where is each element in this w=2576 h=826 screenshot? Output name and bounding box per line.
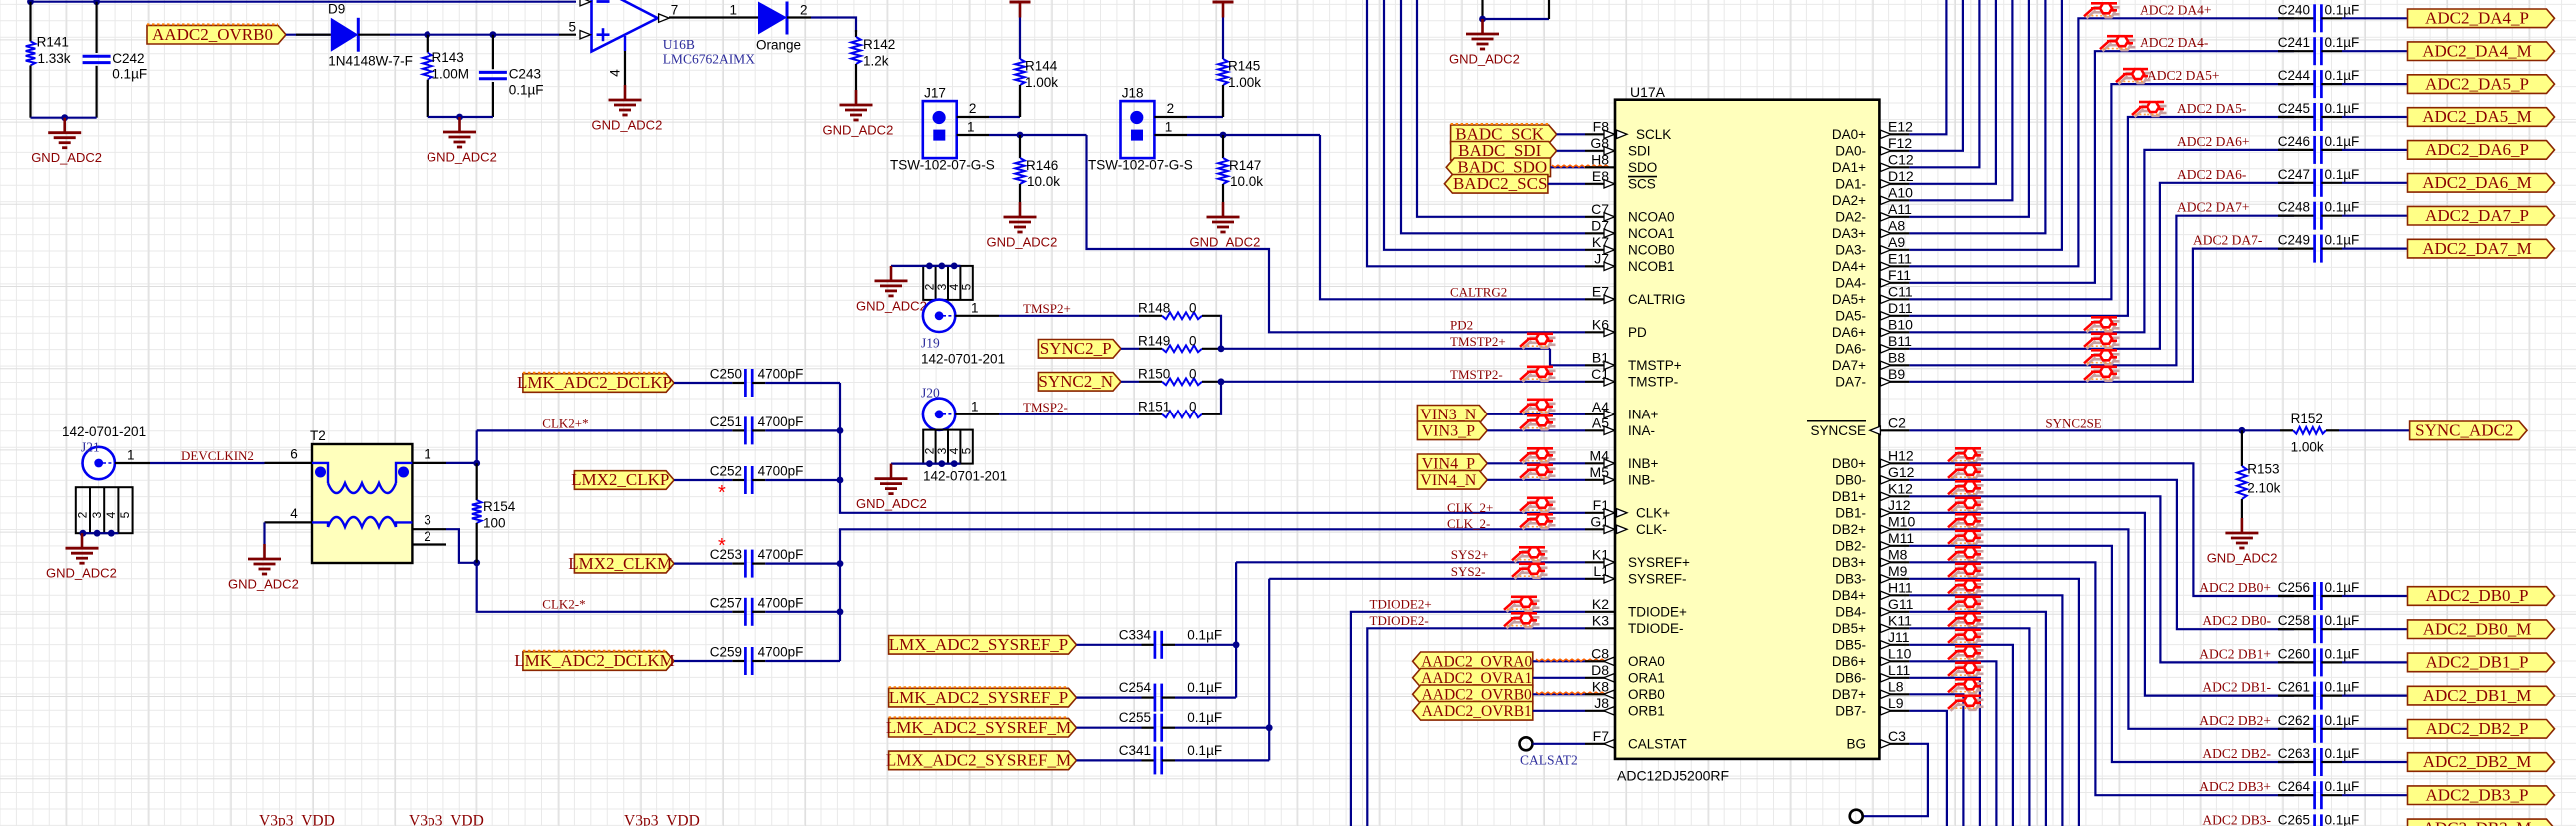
svg-text:DB2-: DB2- [1835, 539, 1866, 554]
net label LMX_ADC2_SYSREF_P [889, 636, 1077, 655]
resistor R152 [2280, 429, 2293, 431]
svg-text:C265: C265 [2278, 812, 2310, 826]
wire BADC_SDO [1551, 166, 1586, 168]
pin B8 DA7+ [1879, 364, 1909, 366]
pin G12 DB0- [1879, 479, 1909, 481]
svg-text:R153: R153 [2247, 462, 2279, 477]
pin H12 DB0+ [1879, 462, 1909, 464]
svg-text:0.1µF: 0.1µF [2325, 779, 2360, 794]
svg-text:0.1µF: 0.1µF [2325, 167, 2360, 182]
ground GND_ADC2 above IC [1481, 19, 1484, 34]
svg-text:TDIODE2+: TDIODE2+ [1370, 597, 1432, 612]
svg-text:4700pF: 4700pF [758, 645, 804, 660]
svg-text:C260: C260 [2278, 646, 2310, 661]
wire AADC2_OVRB0 [1533, 693, 1585, 695]
wire C256 to label [2342, 595, 2407, 597]
pin C3 BG [1879, 743, 1909, 745]
net label ADC2_DB3_M [2408, 819, 2555, 826]
svg-text:LMK_ADC2_SYSREF_M: LMK_ADC2_SYSREF_M [886, 718, 1071, 737]
net label LMX2_CLKP [574, 471, 674, 490]
wire R141-C242 bottom [31, 117, 97, 119]
svg-text:R143: R143 [432, 50, 464, 65]
svg-text:TMSTP+: TMSTP+ [1628, 358, 1682, 373]
pin G1 CLK- [1585, 528, 1615, 530]
svg-text:ADC2_DA7_M: ADC2_DA7_M [2422, 239, 2532, 258]
diff pair DB row 7 [1948, 564, 1984, 579]
svg-text:C3: C3 [1888, 728, 1906, 744]
wire LMK_ADC2_DCLKM to C259 [674, 660, 732, 662]
pin M11 DB2- [1879, 545, 1909, 547]
net label ADC2_DA4_P [2408, 9, 2555, 28]
svg-text:GND_ADC2: GND_ADC2 [46, 566, 117, 581]
svg-text:ADC2_DB3_M: ADC2_DB3_M [2423, 819, 2532, 826]
wire DB net down 9 [1909, 612, 2046, 826]
svg-text:4: 4 [104, 511, 118, 518]
svg-text:2: 2 [800, 3, 808, 18]
wire DA net 1 [1909, 0, 1963, 151]
svg-text:INA+: INA+ [1628, 408, 1659, 422]
node junction gnd2 [456, 114, 463, 121]
svg-text:SYNC2_P: SYNC2_P [1040, 339, 1112, 358]
connector J21 142-0701-201 circle [83, 447, 115, 479]
node junction R141 top [27, 0, 34, 5]
svg-text:TDIODE2-: TDIODE2- [1370, 613, 1429, 628]
svg-text:ORA1: ORA1 [1628, 671, 1665, 686]
testpoint BG2 [1850, 810, 1863, 823]
svg-text:DB1-: DB1- [1835, 506, 1866, 521]
svg-text:K2: K2 [1592, 596, 1609, 612]
svg-text:0.1µF: 0.1µF [1187, 627, 1222, 642]
svg-text:GND_ADC2: GND_ADC2 [592, 118, 663, 133]
pin A8 DA3+ [1879, 232, 1909, 234]
wire DA net 0 [1909, 0, 1946, 134]
svg-text:CLK2-*: CLK2-* [542, 597, 585, 612]
wire LMK_ADC2_DCLKP to C250 [674, 382, 732, 384]
wire VIN3_N [1487, 413, 1585, 415]
wire CLK- bus vertical [840, 529, 1585, 661]
svg-text:L9: L9 [1888, 695, 1904, 711]
pin H8 SDO [1585, 166, 1615, 168]
svg-text:R150: R150 [1138, 367, 1170, 382]
net label VIN4_N [1417, 471, 1487, 490]
wire ADC2_DA7+ route [1909, 216, 2294, 366]
wire CALSTAT [1533, 743, 1586, 745]
svg-text:DA6-: DA6- [1835, 342, 1866, 357]
capacitor C251 [732, 429, 745, 431]
svg-text:2: 2 [969, 101, 977, 116]
svg-text:C251: C251 [710, 414, 742, 429]
diff pair SYS2+ [1512, 547, 1548, 562]
svg-text:TDIODE-: TDIODE- [1628, 621, 1684, 636]
capacitor C260 [2313, 648, 2316, 676]
svg-text:1: 1 [1165, 120, 1173, 135]
pin G11 DB4- [1879, 611, 1909, 613]
capacitor C252 [732, 479, 745, 481]
svg-text:V3p3_VDD: V3p3_VDD [624, 813, 700, 826]
pin L8 DB7+ [1879, 693, 1909, 695]
diff pair DA6 pin row [2084, 317, 2120, 332]
capacitor C241 [2313, 37, 2316, 65]
capacitor C240 [2313, 4, 2316, 32]
diff pair CLK2+ [1520, 498, 1556, 513]
svg-text:BG: BG [1846, 737, 1866, 752]
wire SYS2+ vertical [1235, 562, 1237, 697]
wire C244 to label [2342, 83, 2407, 85]
svg-text:C255: C255 [1119, 710, 1151, 725]
diff pair TDIODE2+ [1504, 597, 1540, 612]
pin L10 DB6+ [1879, 660, 1909, 662]
pin D7 NCOA1 [1585, 232, 1615, 234]
wire CALTRIG route [1320, 135, 1585, 299]
pin 1 stub J17 [957, 134, 989, 136]
wire DA net 3 [1909, 0, 1996, 184]
svg-text:B11: B11 [1888, 333, 1912, 349]
node junction R153 [2239, 427, 2246, 434]
diff pair DB row 3 [1948, 498, 1984, 513]
svg-text:SYS2+: SYS2+ [1451, 547, 1489, 562]
svg-text:ADC2_DA4_P: ADC2_DA4_P [2425, 9, 2529, 28]
svg-text:C11: C11 [1888, 283, 1913, 299]
svg-text:ADC2 DB2+: ADC2 DB2+ [2199, 713, 2271, 728]
svg-text:ORB0: ORB0 [1628, 687, 1665, 702]
diff pair DB row 0 [1948, 448, 1984, 463]
capacitor C248 [2313, 202, 2316, 230]
ground GND_ADC2 under R147 [1222, 202, 1225, 217]
node junction C255 [1266, 724, 1273, 731]
capacitor C250 [732, 382, 745, 384]
svg-text:0.1µF: 0.1µF [2325, 233, 2360, 248]
wire BG to testpoint [1863, 744, 1928, 816]
wire ADC2_DB2+ route [1909, 529, 2294, 729]
wire DB net down 12 [1909, 661, 1996, 826]
pin C11 DA5+ [1879, 298, 1909, 300]
testpoint CALSAT2 [1520, 737, 1533, 750]
svg-text:LMX2_CLKP: LMX2_CLKP [571, 470, 669, 489]
wire SYS2- to pin [1269, 578, 1585, 580]
svg-text:K8: K8 [1592, 678, 1609, 694]
svg-text:DA2+: DA2+ [1832, 193, 1866, 208]
svg-text:2: 2 [76, 511, 90, 518]
svg-text:L8: L8 [1888, 678, 1904, 694]
svg-text:4700pF: 4700pF [758, 547, 804, 562]
wire C264 to label [2342, 794, 2407, 796]
pin K6 PD [1585, 331, 1615, 333]
pin D8 ORA1 [1585, 677, 1615, 679]
svg-text:0.1µF: 0.1µF [2325, 580, 2360, 595]
wire ADC2_DA4- route [1909, 51, 2294, 283]
svg-text:DB2+: DB2+ [1832, 522, 1866, 537]
wire AADC2_OVRA1 [1533, 677, 1585, 679]
net label ADC2_DB0_M [2408, 620, 2555, 639]
wire C261 to label [2342, 694, 2407, 696]
wire C253 to node [765, 562, 840, 564]
svg-text:J18: J18 [1122, 86, 1144, 101]
svg-text:0: 0 [1189, 400, 1197, 414]
svg-text:GND_ADC2: GND_ADC2 [2207, 551, 2278, 566]
svg-text:ADC2 DB1-: ADC2 DB1- [2202, 680, 2271, 695]
pin M10 DB2+ [1879, 528, 1909, 530]
wire C241 to label [2342, 50, 2407, 52]
svg-text:4: 4 [290, 506, 298, 521]
resistor R146 [1019, 135, 1021, 158]
svg-text:SYSREF-: SYSREF- [1628, 572, 1687, 587]
svg-text:J21: J21 [81, 440, 100, 455]
pin F11 DA4- [1879, 282, 1909, 284]
wire DB net down 14 [1909, 694, 1963, 826]
wire SYNC2_N to R150 [1121, 381, 1139, 383]
resistor R153 [2241, 430, 2243, 466]
capacitor C247 [2313, 169, 2316, 197]
svg-text:5: 5 [960, 447, 974, 454]
svg-text:ADC2_DB2_P: ADC2_DB2_P [2426, 719, 2529, 738]
svg-text:LMK_ADC2_DCLKP: LMK_ADC2_DCLKP [517, 373, 672, 392]
node junction J19 pin4 [951, 263, 958, 270]
pin F1 CLK+ [1585, 512, 1615, 514]
node junction J19 pin3 [938, 263, 945, 270]
svg-text:1: 1 [967, 120, 975, 135]
pin F12 DA0- [1879, 150, 1909, 152]
pin K7 NCOB0 [1585, 249, 1615, 251]
svg-text:DB0-: DB0- [1835, 473, 1866, 488]
node junction R146 [1017, 132, 1024, 139]
svg-text:ADC2 DB0+: ADC2 DB0+ [2199, 580, 2271, 595]
capacitor C254 [1154, 684, 1157, 712]
wire T2 pin1 to R154 node [446, 462, 477, 464]
ground GND_ADC2 J19 [890, 266, 893, 281]
svg-text:DB6-: DB6- [1835, 671, 1866, 686]
net label AADC2_OVRB1 [1413, 702, 1533, 721]
wire J18 pin2 to R145 [1187, 116, 1223, 118]
net label BADC_SCK [1451, 125, 1557, 144]
capacitor C245 [2313, 103, 2316, 131]
node junction C251 [837, 427, 844, 434]
capacitor C257 [732, 611, 745, 613]
node junction R143 [424, 31, 430, 38]
node junction J20 pin3 [938, 460, 945, 467]
diff pair TMSTP2+ [1520, 334, 1556, 349]
pin B9 DA7- [1879, 381, 1909, 383]
wire CLK+ bus vertical [840, 383, 1585, 513]
svg-text:CLK-: CLK- [1636, 522, 1667, 537]
svg-text:C2: C2 [1888, 414, 1906, 430]
pin 1 stub J18 [1154, 134, 1187, 136]
node junction J21 a [80, 530, 87, 537]
svg-text:R151: R151 [1138, 400, 1170, 414]
node junction J21 b [94, 530, 101, 537]
svg-text:D11: D11 [1888, 300, 1913, 316]
wire LMX2_CLKM to C253 [674, 562, 732, 564]
svg-text:DB6+: DB6+ [1832, 654, 1866, 669]
wire C251 to node [765, 429, 840, 431]
connector J19 142-0701-201 body [923, 266, 973, 300]
svg-text:0.1µF: 0.1µF [112, 67, 147, 82]
wire C248 to label [2342, 215, 2407, 217]
node junction TMSTP+ [1218, 345, 1225, 352]
pin 1 stub T2 [412, 462, 446, 464]
svg-text:A11: A11 [1888, 201, 1912, 217]
svg-text:GND_ADC2: GND_ADC2 [856, 298, 927, 313]
svg-text:TMSTP2-: TMSTP2- [1450, 367, 1503, 382]
capacitor C265 [2313, 814, 2316, 826]
svg-text:DB5-: DB5- [1835, 638, 1866, 653]
pin E7 CALTRIG [1585, 298, 1615, 300]
net label BADC_SDO [1446, 158, 1550, 177]
svg-text:ADC2 DA7+: ADC2 DA7+ [2177, 200, 2250, 215]
svg-text:PD2: PD2 [1450, 317, 1473, 332]
svg-text:1.00k: 1.00k [1025, 75, 1058, 90]
svg-text:4: 4 [608, 69, 623, 77]
svg-text:DA1+: DA1+ [1832, 160, 1866, 175]
svg-text:ADC2_DB2_M: ADC2_DB2_M [2423, 752, 2532, 771]
svg-text:100: 100 [483, 516, 506, 531]
ground GND_ADC2 under R142 [855, 90, 858, 105]
svg-text:SYS2-: SYS2- [1451, 564, 1486, 579]
svg-text:R147: R147 [1229, 158, 1261, 173]
diff pair VIN3_N [1520, 400, 1556, 414]
wire ADC2_DB1- route [1909, 513, 2294, 696]
svg-text:0.1µF: 0.1µF [2325, 101, 2360, 116]
svg-text:NCOA0: NCOA0 [1628, 210, 1675, 225]
net label LMX2_CLKM [574, 554, 674, 573]
svg-text:C252: C252 [710, 464, 742, 479]
wire DB net down 8 [1909, 595, 2062, 826]
svg-text:C259: C259 [710, 645, 742, 660]
connector J20 142-0701-201 body [923, 430, 973, 464]
wire DB net down 15 [1909, 711, 1947, 826]
svg-text:M11: M11 [1888, 530, 1914, 546]
wire J19 shield to gnd [891, 265, 960, 267]
svg-text:R146: R146 [1026, 158, 1058, 173]
svg-text:0.1µF: 0.1µF [2325, 68, 2360, 83]
svg-text:ADC2 DA4+: ADC2 DA4+ [2140, 2, 2212, 17]
wire ADC2_DB0- route [1909, 480, 2294, 629]
svg-text:*: * [718, 482, 726, 504]
wire TMSTP- route [1220, 381, 1585, 383]
wire C334 to SYS2+ vert [1175, 644, 1236, 646]
T2 polarity dot right [398, 467, 409, 478]
pin 5 arrow [580, 31, 591, 39]
capacitor C253 [732, 562, 745, 564]
pin K3 TDIODE- [1585, 627, 1615, 629]
svg-text:1.00k: 1.00k [1228, 75, 1261, 90]
wire DB net down 11 [1909, 645, 2013, 826]
diff pair DB row 12 [1948, 646, 1984, 661]
wire SYS2+ to pin [1236, 561, 1585, 563]
pin 1 stub J20 [955, 413, 999, 415]
wire ADC2_DB1+ route [1909, 496, 2294, 662]
resistor R149 [1139, 348, 1162, 350]
pin 4 stub T2 [265, 521, 313, 523]
pin 4 op-amp ground lead [624, 36, 626, 51]
svg-text:SDO: SDO [1628, 160, 1657, 175]
connector J19 SMA circle [923, 300, 955, 332]
T2 polarity dot left [315, 467, 326, 478]
wire BADC2_SCS [1548, 183, 1585, 185]
net label ADC2_DB2_M [2408, 753, 2555, 772]
svg-text:C248: C248 [2278, 200, 2310, 215]
svg-text:3: 3 [424, 513, 431, 528]
resistor R151 [1139, 413, 1162, 415]
diff pair ADC2_DA5+ [2116, 69, 2151, 84]
node junction C243 [490, 31, 497, 38]
svg-text:CLK_2+: CLK_2+ [1447, 500, 1493, 515]
wire R148 to junction [1220, 316, 1221, 349]
svg-text:CALSTAT: CALSTAT [1628, 737, 1687, 752]
wire R143-C243 bottom [428, 116, 493, 118]
wire VIN3_P [1487, 429, 1585, 431]
svg-text:TMSTP2+: TMSTP2+ [1450, 334, 1506, 349]
wire C249 to label [2342, 248, 2407, 250]
power bar above R144 [1010, 1, 1031, 4]
svg-text:AADC2_OVRB0: AADC2_OVRB0 [152, 25, 273, 44]
svg-text:1: 1 [424, 447, 431, 462]
node junction C242 top [93, 0, 100, 5]
pin 2 stub J17 [957, 116, 989, 118]
pin C2 SYNCSE [1879, 429, 1909, 431]
wire R152 to label [2339, 429, 2410, 431]
node junction J21 c [108, 530, 115, 537]
svg-text:R152: R152 [2291, 412, 2323, 426]
svg-text:CLK+: CLK+ [1636, 506, 1670, 521]
pin 6 stub T2 [265, 462, 313, 464]
svg-text:G11: G11 [1888, 596, 1914, 612]
pin A5 INA- [1585, 429, 1615, 431]
svg-text:DA2-: DA2- [1835, 210, 1866, 225]
node junction gnd [61, 114, 68, 121]
wire DA net 5 [1909, 0, 2029, 217]
svg-text:H8: H8 [1591, 151, 1609, 167]
ground GND_ADC2 J21 [81, 533, 84, 548]
wire TDIODE2+ [1351, 612, 1585, 826]
wire TMSP2- [999, 413, 1139, 415]
svg-text:K11: K11 [1888, 612, 1912, 628]
ground GND_ADC2 J20 [890, 464, 893, 479]
pin J12 DB1- [1879, 512, 1909, 514]
ground GND_ADC2 op-amp [624, 85, 627, 100]
diff pair DB row 5 [1948, 531, 1984, 546]
capacitor C261 [2313, 682, 2316, 710]
svg-text:ADC2_DB1_M: ADC2_DB1_M [2423, 686, 2532, 705]
svg-text:SYNC2SE: SYNC2SE [2045, 415, 2101, 430]
pin F7 CALSTAT [1585, 743, 1615, 745]
pin M8 DB3+ [1879, 561, 1909, 563]
svg-text:PD: PD [1628, 325, 1647, 340]
svg-text:CLK2+*: CLK2+* [542, 416, 588, 431]
capacitor C259 [732, 660, 745, 662]
wire J17 pin2 to R144 [989, 116, 1020, 118]
svg-text:4700pF: 4700pF [758, 414, 804, 429]
svg-text:R149: R149 [1138, 334, 1170, 349]
wire ADC2_DA6+ route [1909, 150, 2294, 332]
wire BADC_SCK [1557, 133, 1585, 135]
pin F8 SCLK [1585, 133, 1615, 135]
wire C262 to label [2342, 728, 2407, 730]
svg-text:C254: C254 [1119, 680, 1152, 695]
pin M5 INB- [1585, 479, 1615, 481]
connector J18 TSW-102-07-G-S [1121, 101, 1155, 158]
svg-text:TSW-102-07-G-S: TSW-102-07-G-S [890, 158, 995, 173]
net label BADC_SDI [1451, 142, 1557, 161]
svg-text:ADC12DJ5200RF: ADC12DJ5200RF [1617, 768, 1729, 784]
svg-text:SYNC2_N: SYNC2_N [1038, 372, 1113, 391]
resistor R147 [1222, 135, 1224, 158]
pin A9 DA3- [1879, 249, 1909, 251]
svg-text:1: 1 [971, 400, 979, 414]
svg-text:K3: K3 [1592, 612, 1609, 628]
net label LMK_ADC2_DCLKM [523, 652, 674, 671]
net label VIN3_P [1417, 421, 1487, 440]
diff pair DB row 8 [1948, 580, 1984, 595]
